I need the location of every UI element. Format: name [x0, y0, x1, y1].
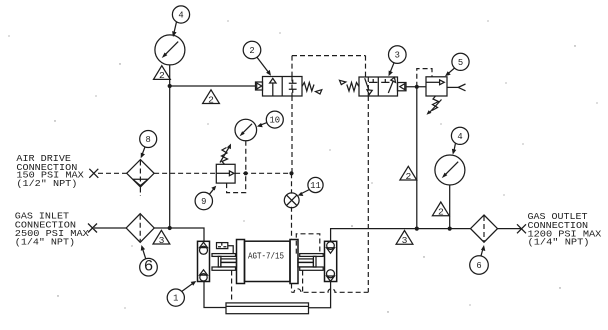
label GAS OUTLET CONNECTION 1200 PSI MAX (1/4" NPT)	[528, 211, 602, 248]
wire gauge4L stem	[169, 65, 171, 86]
balloon 9 (air regulator)	[195, 186, 216, 210]
piston flange bars left	[212, 254, 236, 257]
port X air drive	[89, 169, 98, 178]
wire dashed drop right	[302, 271, 304, 293]
piston rod right	[313, 256, 316, 267]
svg-text:(1/4" NPT): (1/4" NPT)	[15, 237, 75, 248]
balloon 3 (valve 3)	[389, 46, 407, 76]
svg-text:11: 11	[310, 181, 321, 191]
valve V5 pilot-operated vent regulator (item 5)	[426, 77, 447, 115]
svg-text:9: 9	[201, 197, 206, 207]
wire shutoff drop to booster	[291, 173, 293, 292]
cylinder barrel	[245, 241, 291, 281]
balloon 8 (air filter)	[140, 131, 157, 159]
svg-text:6: 6	[144, 257, 154, 275]
triangle marker 2 (on riser x=417)	[400, 166, 417, 182]
balloon 4 (left gauge)	[172, 6, 189, 37]
wire valve2 dashed through box	[291, 77, 293, 97]
svg-text:4: 4	[457, 132, 462, 142]
svg-text:2: 2	[208, 95, 214, 105]
balloon 5 (valve 5)	[445, 53, 469, 76]
piston flange bars right	[300, 254, 324, 257]
junction gauge4L / pilot line	[168, 84, 172, 88]
junction gas inlet / riser	[168, 226, 172, 230]
valve V2 pilot-operated 2/2 (item 2)	[256, 77, 322, 97]
svg-text:AGT-7/15: AGT-7/15	[248, 250, 284, 261]
gauge G4 left (item 4)	[155, 35, 185, 65]
svg-text:3: 3	[395, 51, 400, 61]
svg-text:4: 4	[178, 11, 183, 21]
piston rod left	[218, 256, 221, 267]
balloon 4 (right gauge)	[451, 127, 468, 154]
junction outlet line / riser	[415, 227, 419, 231]
filter F6 gas outlet (item 6)	[471, 215, 498, 242]
wire valve3 dashed riser	[366, 56, 369, 293]
svg-text:3: 3	[402, 236, 408, 246]
wire left check to base	[204, 282, 226, 308]
wire dashed bridge valve2-valve3	[292, 55, 366, 57]
balloon 1 (check valve block)	[167, 281, 196, 306]
svg-text:(1/2" NPT): (1/2" NPT)	[16, 178, 77, 189]
gauge G10 air regulator gauge (item 10)	[235, 119, 257, 141]
wire dashed drop left	[231, 271, 233, 304]
svg-text:1: 1	[173, 294, 178, 304]
svg-text:2: 2	[438, 208, 444, 218]
filter F6 gas inlet (item 6)	[126, 214, 154, 243]
wire dashed box right pilot	[296, 234, 320, 254]
junction outlet line / gauge4R stem	[448, 227, 452, 231]
triangle marker 2 (below gauge 4 right)	[432, 202, 449, 218]
wire gauge4R stem	[449, 185, 451, 229]
triangle marker 3 (gas inlet)	[153, 230, 170, 246]
wire gas inlet line	[94, 228, 204, 241]
svg-text:2: 2	[406, 172, 412, 182]
wire right check to base	[309, 282, 331, 308]
port X gas outlet	[517, 224, 526, 233]
base bar	[226, 303, 309, 314]
wire valve5 pilot sense dashed	[417, 69, 432, 87]
label GAS INLET CONNECTION 2500 PSI MAX (1/4" NPT)	[15, 210, 90, 247]
cylinder end cap right	[290, 240, 298, 284]
svg-text:8: 8	[146, 135, 151, 145]
junction air line / gauge10 drop	[244, 171, 248, 175]
gauge G4 right (item 4)	[435, 155, 465, 185]
svg-text:10: 10	[270, 116, 281, 126]
check valve block left	[198, 241, 210, 281]
cycling pilot valve (small box)	[217, 243, 234, 254]
wire regulator vent loop	[227, 173, 246, 192]
balloon 10 (gauge 10)	[257, 111, 283, 128]
wire gauge10 drop	[245, 141, 247, 174]
wire pilot line to valve2	[170, 85, 256, 87]
wire valve5 exhaust	[447, 86, 459, 88]
triangle marker 3 (gas outlet)	[396, 231, 413, 247]
balloon 11 (shutoff)	[298, 177, 323, 196]
wire air drive dashed: X to filter to regulator	[98, 172, 216, 174]
triangle marker 2 (near gauge 4 left)	[154, 66, 171, 82]
svg-text:5: 5	[458, 58, 463, 68]
svg-text:6: 6	[476, 261, 481, 271]
wire regulator out to junctions	[235, 172, 291, 174]
junction valve3 outlet / valve5	[415, 85, 419, 89]
triangle marker 2 (on pilot line)	[203, 90, 220, 106]
wire riser gauge4L to inlet	[169, 86, 171, 228]
balloon 2 (valve 2)	[243, 41, 271, 75]
exhaust arrow valve5	[458, 84, 465, 91]
balloon 6 (outlet filter)	[470, 245, 489, 274]
svg-text:3: 3	[159, 236, 165, 246]
regulator R9 air drive regulator (item 9)	[216, 144, 235, 184]
filter F8 air drive (item 8)	[127, 160, 154, 196]
wire valve2 pilot dashed riser top	[291, 56, 293, 174]
balloon 6 (inlet filter)	[140, 245, 158, 276]
valve V3 pilot-operated 3/2 (item 3)	[340, 77, 407, 96]
junction air line / valve2 pilot drop	[289, 171, 293, 175]
label AIR DRIVE CONNECTION 150 PSI MAX (1/2" NPT)	[16, 153, 84, 189]
valve CV11 shutoff (item 11)	[284, 193, 299, 208]
wire bottom dashed run	[292, 289, 369, 293]
wire riser valve area to outlet	[416, 87, 418, 229]
check valve block right	[325, 241, 337, 281]
wire gas outlet line	[331, 229, 522, 242]
svg-text:(1/4" NPT): (1/4" NPT)	[528, 237, 590, 248]
port X gas inlet	[88, 224, 97, 233]
wire valve3 to junction to valve5	[406, 86, 426, 88]
cylinder end cap left	[237, 240, 245, 284]
svg-text:2: 2	[159, 71, 165, 81]
svg-text:2: 2	[249, 46, 254, 56]
